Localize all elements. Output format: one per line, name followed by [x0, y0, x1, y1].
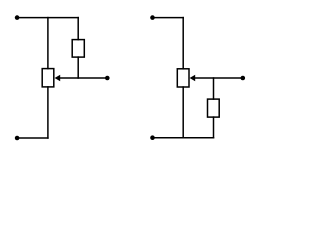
- node A2 (right circuit top terminal): [150, 15, 155, 20]
- wire wiper line right circuit: [195, 77, 243, 79]
- wiper arrow of P1: [55, 75, 61, 81]
- wire bottom rail left circuit: [17, 137, 48, 139]
- node A (left circuit top terminal): [15, 15, 20, 20]
- node B2 (right circuit bottom terminal): [150, 135, 155, 140]
- wire resistor R1 top stem: [77, 18, 79, 40]
- wire pot P1 top stem: [47, 18, 49, 69]
- potentiometer P2 body: [177, 69, 189, 87]
- wire pot P1 bottom stem: [47, 87, 49, 138]
- wire pot P2 bottom stem: [182, 87, 184, 138]
- node B (left circuit bottom terminal): [15, 136, 20, 141]
- node W (left circuit wiper terminal): [105, 76, 110, 81]
- resistor R2 body: [208, 99, 220, 117]
- wire pot P2 top stem: [182, 18, 184, 69]
- wire resistor R2 top stem: [213, 78, 215, 99]
- node W2 (right circuit wiper terminal): [241, 76, 246, 81]
- potentiometer P1 body: [42, 69, 54, 87]
- wire bottom rail right circuit: [153, 137, 214, 139]
- wire top rail left circuit: [17, 17, 78, 19]
- wiper arrow of P2: [190, 75, 196, 81]
- wire wiper line left circuit: [60, 77, 108, 79]
- wire resistor R2 bottom stem: [213, 117, 215, 138]
- wire top rail right circuit: [153, 17, 184, 19]
- resistor R1 body: [72, 40, 84, 58]
- wire resistor R1 bottom stem: [77, 57, 79, 78]
